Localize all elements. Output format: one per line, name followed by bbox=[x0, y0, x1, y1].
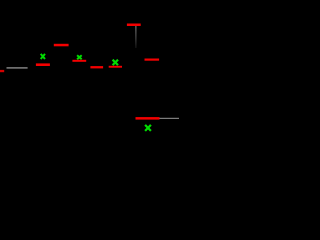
net highlight segment B bbox=[54, 44, 69, 47]
net highlight segment A (top right) bbox=[127, 24, 141, 27]
wire W1 (dim horizontal, left) bbox=[7, 67, 28, 68]
net highlight segment F bbox=[109, 66, 122, 68]
net highlight segment G bbox=[145, 59, 160, 61]
no-connect marker X4 bbox=[145, 125, 151, 131]
net highlight segment H (long, lower right) bbox=[136, 117, 160, 120]
no-connect marker X2 bbox=[77, 55, 82, 59]
no-connect marker X1 bbox=[41, 54, 45, 59]
net highlight segment C bbox=[36, 63, 50, 66]
net highlight segment E bbox=[90, 66, 103, 68]
net stub at left edge bbox=[0, 70, 4, 72]
net highlight segment D bbox=[72, 60, 86, 62]
no-connect marker X3 bbox=[113, 60, 118, 65]
wire W3 (dim continuation of segment H) bbox=[160, 118, 180, 119]
